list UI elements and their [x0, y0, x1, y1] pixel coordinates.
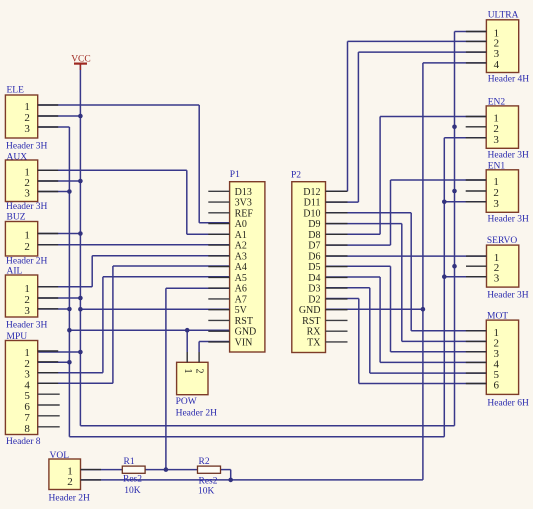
svg-text:6: 6 [494, 380, 500, 392]
svg-text:D3: D3 [308, 284, 320, 295]
svg-text:A1: A1 [235, 230, 247, 241]
svg-text:D13: D13 [235, 187, 252, 198]
svg-text:VIN: VIN [235, 337, 253, 348]
svg-text:R2: R2 [199, 457, 210, 467]
svg-text:EN2: EN2 [488, 97, 506, 107]
svg-text:Header 3H: Header 3H [6, 202, 48, 212]
svg-text:D11: D11 [304, 198, 321, 209]
svg-text:D4: D4 [308, 273, 320, 284]
svg-text:A5: A5 [235, 273, 247, 284]
svg-text:GND: GND [299, 305, 321, 316]
svg-text:VOL: VOL [50, 451, 70, 461]
svg-text:A0: A0 [235, 219, 247, 230]
svg-text:Res2: Res2 [123, 475, 142, 485]
svg-text:5V: 5V [235, 305, 248, 316]
svg-text:Header 4H: Header 4H [488, 75, 530, 85]
svg-text:Header 2H: Header 2H [6, 257, 48, 267]
svg-text:REF: REF [235, 208, 254, 219]
svg-text:2: 2 [67, 476, 73, 488]
svg-text:Header 2H: Header 2H [176, 409, 218, 419]
svg-text:GND: GND [235, 327, 257, 338]
svg-text:AIL: AIL [7, 267, 23, 277]
svg-text:A6: A6 [235, 284, 247, 295]
svg-text:P1: P1 [230, 170, 240, 180]
svg-text:D12: D12 [303, 187, 320, 198]
svg-text:RX: RX [307, 327, 322, 338]
svg-text:3: 3 [24, 123, 30, 135]
svg-text:10K: 10K [124, 486, 141, 496]
svg-text:AUX: AUX [7, 152, 28, 162]
svg-text:TX: TX [307, 337, 321, 348]
svg-text:8: 8 [24, 423, 30, 435]
svg-text:Header 2H: Header 2H [49, 494, 91, 504]
svg-text:D10: D10 [303, 208, 320, 219]
svg-text:Header 3H: Header 3H [6, 142, 48, 152]
svg-text:D5: D5 [308, 262, 320, 273]
svg-text:10K: 10K [198, 487, 215, 497]
svg-text:MPU: MPU [7, 332, 28, 342]
svg-text:D6: D6 [308, 251, 320, 262]
svg-text:A4: A4 [235, 262, 247, 273]
svg-text:Header 3H: Header 3H [487, 290, 529, 300]
svg-text:Header 3H: Header 3H [6, 321, 48, 331]
svg-text:2: 2 [194, 369, 205, 374]
svg-text:Header 3H: Header 3H [488, 151, 530, 161]
svg-text:1: 1 [24, 283, 30, 295]
svg-text:A7: A7 [235, 294, 247, 305]
svg-text:3: 3 [24, 188, 30, 200]
svg-text:MOT: MOT [487, 311, 508, 321]
svg-text:Header 3H: Header 3H [488, 215, 530, 225]
svg-text:A3: A3 [235, 251, 247, 262]
svg-text:Res2: Res2 [199, 476, 218, 486]
svg-text:Header 8: Header 8 [6, 437, 41, 447]
svg-text:3: 3 [493, 198, 499, 210]
svg-text:POW: POW [176, 397, 197, 407]
svg-text:D9: D9 [308, 219, 320, 230]
svg-text:BUZ: BUZ [7, 213, 26, 223]
svg-text:3: 3 [494, 273, 500, 285]
svg-text:EN1: EN1 [488, 161, 506, 171]
svg-text:D8: D8 [308, 230, 320, 241]
svg-text:Header 6H: Header 6H [487, 398, 529, 408]
svg-text:A2: A2 [235, 241, 247, 252]
svg-text:2: 2 [24, 241, 30, 253]
svg-text:1: 1 [24, 230, 30, 242]
svg-text:R1: R1 [124, 457, 135, 467]
svg-text:D2: D2 [308, 294, 320, 305]
svg-text:3: 3 [493, 134, 499, 146]
svg-text:ELE: ELE [7, 86, 25, 96]
svg-text:RST: RST [302, 316, 320, 327]
svg-text:4: 4 [494, 59, 500, 71]
svg-text:P2: P2 [291, 171, 301, 181]
svg-text:RST: RST [235, 316, 253, 327]
svg-text:3: 3 [24, 305, 30, 317]
svg-text:1: 1 [182, 369, 193, 374]
svg-text:3V3: 3V3 [235, 198, 252, 209]
svg-text:ULTRA: ULTRA [488, 11, 519, 21]
svg-text:SERVO: SERVO [487, 236, 518, 246]
svg-text:D7: D7 [308, 241, 320, 252]
